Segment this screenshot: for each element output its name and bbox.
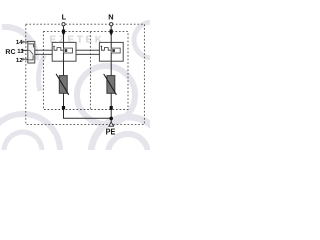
disconnector U2 bbox=[99, 42, 123, 61]
wire RC to U1 lower bbox=[35, 53, 52, 55]
wire L vertical bbox=[63, 26, 65, 43]
junction dot bbox=[109, 117, 113, 121]
wire RC to U1 upper bbox=[35, 49, 52, 51]
svg-text:12: 12 bbox=[16, 57, 23, 64]
SPD module enclosure inner dashed border bbox=[43, 32, 128, 110]
terminal 14 bbox=[16, 39, 28, 46]
svg-text:PE: PE bbox=[106, 126, 116, 136]
remote contact RC block bbox=[28, 41, 35, 63]
wire RV1 elbow to junction bbox=[64, 111, 112, 119]
terminal PE triangle bbox=[109, 122, 114, 126]
wire N vertical bbox=[110, 26, 112, 43]
wire U1 to U2 lower bbox=[76, 53, 99, 55]
wire U1 to U2 upper bbox=[76, 49, 99, 51]
wire U2 to RV2 bbox=[110, 61, 112, 75]
terminal 11 bbox=[17, 48, 28, 55]
varistor RV1 bbox=[56, 74, 69, 95]
wire RV1 down bbox=[63, 93, 65, 106]
arrow N entry bbox=[110, 30, 113, 36]
wire RV2 down bbox=[110, 93, 112, 106]
varistor RV2 bbox=[104, 74, 117, 95]
svg-text:14: 14 bbox=[16, 39, 23, 46]
terminal circle N bbox=[110, 23, 113, 26]
arrow RV2 to PE bbox=[110, 106, 113, 111]
terminal circle L bbox=[62, 23, 65, 26]
wire junction to PE bbox=[110, 111, 112, 123]
terminal 12 bbox=[16, 57, 28, 64]
arrow RV1 to PE bbox=[62, 106, 65, 111]
disconnector U1 bbox=[52, 42, 76, 61]
svg-text:L: L bbox=[62, 13, 67, 22]
svg-text:RC: RC bbox=[5, 49, 15, 56]
arrow L entry bbox=[62, 30, 65, 36]
device enclosure dashed border bbox=[26, 24, 145, 124]
wire U1 to RV1 bbox=[63, 61, 65, 75]
svg-text:N: N bbox=[108, 13, 113, 22]
module divider dashed line bbox=[89, 32, 91, 110]
